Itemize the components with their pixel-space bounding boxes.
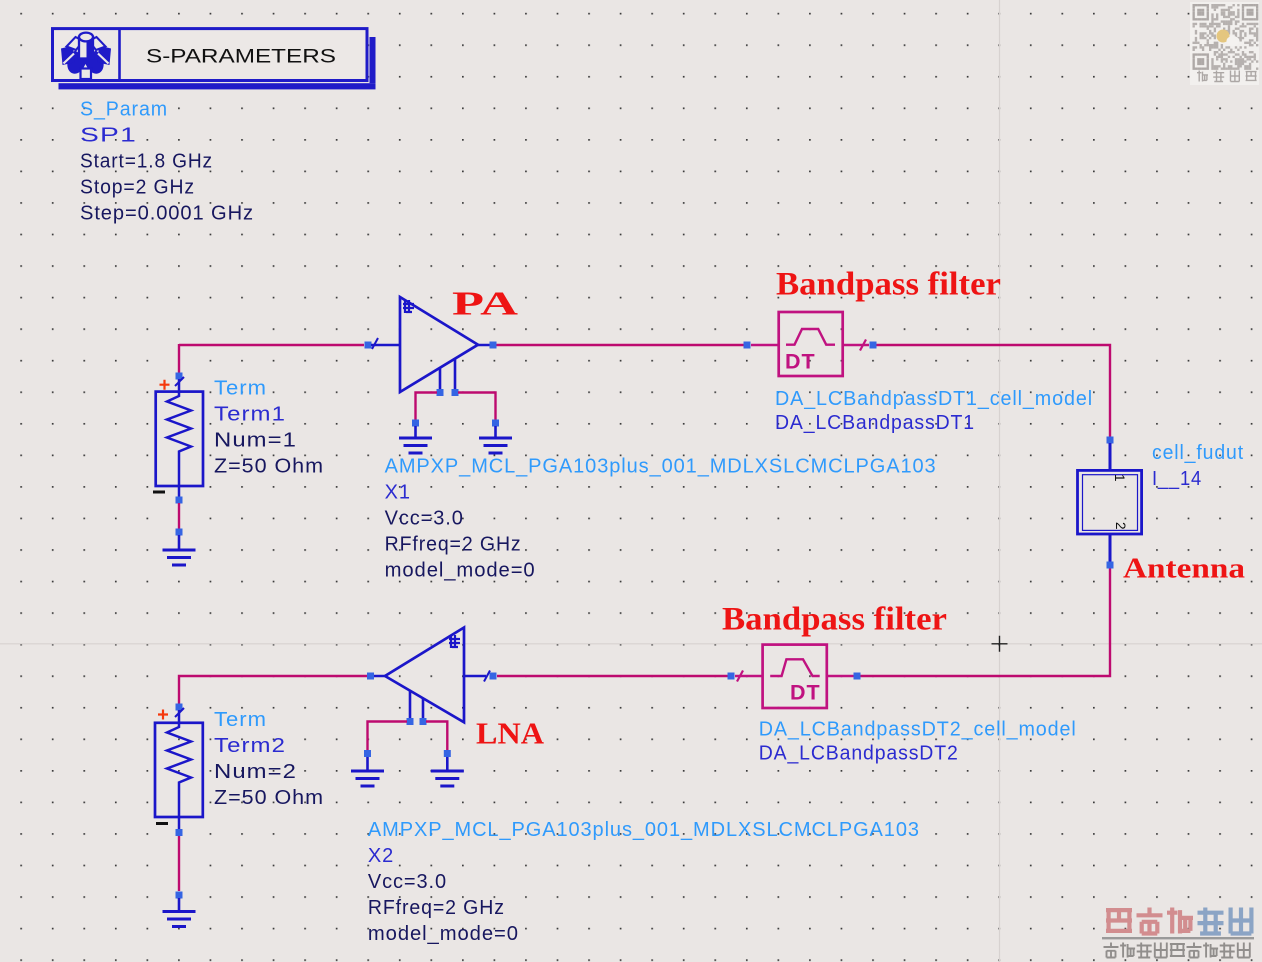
op-amp X2 LNA triangle xyxy=(373,628,486,723)
svg-text:Term: Term xyxy=(214,709,267,731)
svg-text:Bandpass filter: Bandpass filter xyxy=(776,267,1001,303)
X2 name label xyxy=(368,845,394,867)
Term1 ground stub xyxy=(178,535,181,550)
Term2 Z label xyxy=(214,787,324,809)
svg-text:DA_LCBandpassDT1: DA_LCBandpassDT1 xyxy=(775,412,975,434)
site watermark xyxy=(1102,908,1254,958)
svg-text:cell_fudut: cell_fudut xyxy=(1152,442,1244,464)
X2 output node xyxy=(367,673,374,680)
wire LNA output to Term2 xyxy=(179,676,367,704)
filter DT2 input node xyxy=(728,673,735,680)
filter DT1 output tick xyxy=(860,340,866,351)
X2 model name label xyxy=(368,819,920,841)
X2 input tick xyxy=(484,671,490,682)
X1 pin4 node xyxy=(452,389,459,396)
S-PARAMETERS gear icon xyxy=(61,33,111,79)
Stop value label xyxy=(80,177,195,199)
ground (X1 left) xyxy=(399,438,432,453)
QR watermark xyxy=(1190,2,1259,85)
S-PARAMETERS title xyxy=(146,46,336,68)
svg-text:S_Param: S_Param xyxy=(80,99,168,121)
svg-text:Term2: Term2 xyxy=(214,735,286,757)
Term1 Z label xyxy=(214,456,324,478)
DT1 name label xyxy=(775,412,975,434)
filter DT1 output node xyxy=(870,342,877,349)
X1 model_mode label xyxy=(385,559,536,581)
svg-text:RFfreq=2 GHz: RFfreq=2 GHz xyxy=(385,533,522,555)
DT2 model label xyxy=(759,719,1077,741)
Step value label xyxy=(80,203,254,225)
X1 name label xyxy=(385,481,411,503)
cell_fudut label xyxy=(1152,442,1244,464)
Term2 resistor body xyxy=(155,710,203,829)
filter DT1 input node xyxy=(744,342,751,349)
X1 ground stub right xyxy=(494,426,497,438)
wire X2 pin4 to ground xyxy=(426,722,447,751)
svg-text:DT: DT xyxy=(790,681,821,705)
Term label (Term2) xyxy=(214,709,267,731)
Term1 node bottom xyxy=(176,497,183,504)
svg-text:PA: PA xyxy=(452,286,519,323)
Term1 pin tick xyxy=(175,377,184,386)
svg-text:AMPXP_MCL_PGA103plus_001_MDLXS: AMPXP_MCL_PGA103plus_001_MDLXSLCMCLPGA10… xyxy=(385,455,937,477)
wire X1 pin4 to ground xyxy=(458,393,496,421)
X2 RFfreq label xyxy=(368,897,505,919)
X2 ground stub right xyxy=(446,757,449,771)
svg-text:Z=50 Ohm: Z=50 Ohm xyxy=(214,787,324,809)
ground (X1 right) xyxy=(479,438,512,453)
svg-text:X2: X2 xyxy=(368,845,394,867)
Term2 minus sign xyxy=(156,822,168,825)
X1 pin3 node xyxy=(437,389,444,396)
svg-text:Vcc=3.0: Vcc=3.0 xyxy=(385,507,464,529)
Term2 name label xyxy=(214,735,286,757)
svg-text:Bandpass filter: Bandpass filter xyxy=(722,602,947,638)
Term2 node bottom xyxy=(176,829,183,836)
svg-text:RFfreq=2 GHz: RFfreq=2 GHz xyxy=(368,897,505,919)
X2 ground stub left xyxy=(366,757,369,771)
Term2 ground node xyxy=(176,892,183,899)
X1 ground node left xyxy=(412,420,419,427)
Term2 Num label xyxy=(214,761,297,783)
S-PARAMETERS controller box xyxy=(53,29,368,81)
wire PA output to filter1 xyxy=(496,344,744,346)
Term1 node top xyxy=(176,373,183,380)
X1 input tick xyxy=(372,338,378,349)
X1 output node xyxy=(490,342,497,349)
X2 pin4 node xyxy=(420,718,427,725)
Term1 name label xyxy=(214,404,286,426)
ground (X2 right) xyxy=(431,771,464,786)
svg-text:DA_LCBandpassDT1_cell_model: DA_LCBandpassDT1_cell_model xyxy=(775,388,1093,410)
Term label (Term1) xyxy=(214,378,267,400)
DT2 name label xyxy=(759,743,959,765)
Term1 ground xyxy=(163,550,196,565)
wire Term1 corner down xyxy=(178,344,180,373)
op-amp X2 LNA input node xyxy=(490,673,497,680)
Term2 ground stub xyxy=(178,898,181,912)
PA label xyxy=(452,286,519,323)
Bandpass filter label (bottom) xyxy=(722,602,947,638)
Term2 ground xyxy=(163,912,196,927)
SP1 label xyxy=(80,125,137,147)
filter DT2 output node xyxy=(854,673,861,680)
svg-text:Step=0.0001 GHz: Step=0.0001 GHz xyxy=(80,203,254,225)
op-amp X1 PA input node xyxy=(365,342,372,349)
wire Term1 to PA input xyxy=(179,344,364,346)
wire antenna to filter2 xyxy=(860,565,1110,676)
Term1 Num label xyxy=(214,430,297,452)
wire Term2 to ground xyxy=(178,836,180,891)
svg-text:model_mode=0: model_mode=0 xyxy=(368,923,519,945)
svg-text:Vcc=3.0: Vcc=3.0 xyxy=(368,871,447,893)
antenna node top xyxy=(1107,437,1114,444)
antenna node bottom xyxy=(1107,562,1114,569)
Term1 plus sign xyxy=(160,380,170,390)
Term2 plus sign xyxy=(158,710,168,720)
svg-text:Num=2: Num=2 xyxy=(214,761,297,783)
wire X1 pin3 to ground xyxy=(416,393,438,421)
Bandpass filter label (top) xyxy=(776,267,1001,303)
LNA label xyxy=(476,716,545,751)
svg-text:Z=50 Ohm: Z=50 Ohm xyxy=(214,456,324,478)
S-PARAMETERS controller box shadow xyxy=(59,37,376,89)
filter DT1 box xyxy=(751,312,869,376)
antenna I__14 xyxy=(1078,443,1142,562)
filter DT2 box xyxy=(735,645,856,708)
antenna pin 2 number xyxy=(1113,522,1128,530)
svg-text:DT: DT xyxy=(785,350,816,374)
Term2 node top xyxy=(176,704,183,711)
Antenna label xyxy=(1123,553,1246,585)
S_Param label xyxy=(80,99,168,121)
svg-text:Term: Term xyxy=(214,378,267,400)
X2 model_mode label xyxy=(368,923,519,945)
Start value label xyxy=(80,151,213,173)
filter DT2 input tick xyxy=(737,671,743,682)
Term1 ground node xyxy=(176,529,183,536)
wire filter1 to antenna xyxy=(876,345,1110,438)
svg-text:Start=1.8 GHz: Start=1.8 GHz xyxy=(80,151,213,173)
svg-text:DA_LCBandpassDT2: DA_LCBandpassDT2 xyxy=(759,743,959,765)
X1 Vcc label xyxy=(385,507,464,529)
svg-text:DA_LCBandpassDT2_cell_model: DA_LCBandpassDT2_cell_model xyxy=(759,719,1077,741)
svg-text:Term1: Term1 xyxy=(214,404,286,426)
X2 ground node left xyxy=(364,750,371,757)
Term1 resistor body xyxy=(156,379,203,497)
svg-text:Antenna: Antenna xyxy=(1123,553,1246,585)
svg-text:AMPXP_MCL_PGA103plus_001_MDLXS: AMPXP_MCL_PGA103plus_001_MDLXSLCMCLPGA10… xyxy=(368,819,920,841)
X1 ground node right xyxy=(492,420,499,427)
svg-text:Stop=2 GHz: Stop=2 GHz xyxy=(80,177,195,199)
Term1 minus sign xyxy=(153,491,165,494)
ground (X2 left) xyxy=(351,771,384,786)
wire Term1 to ground xyxy=(178,503,180,529)
X2 ground node right xyxy=(444,750,451,757)
svg-text:1: 1 xyxy=(1112,474,1127,482)
op-amp X1 PA triangle xyxy=(371,297,491,392)
svg-text:I__14: I__14 xyxy=(1152,468,1202,490)
X2 pin3 node xyxy=(407,718,414,725)
X1 RFfreq label xyxy=(385,533,522,555)
wire X2 pin3 to ground xyxy=(368,722,408,751)
DT1 model label xyxy=(775,388,1093,410)
svg-text:Num=1: Num=1 xyxy=(214,430,297,452)
X1 ground stub left xyxy=(414,426,417,438)
Term2 pin tick xyxy=(175,708,184,717)
svg-text:2: 2 xyxy=(1113,522,1128,530)
svg-text:model_mode=0: model_mode=0 xyxy=(385,559,536,581)
I__14 label xyxy=(1152,468,1202,490)
svg-text:X1: X1 xyxy=(385,481,411,503)
svg-text:LNA: LNA xyxy=(476,716,545,751)
X2 Vcc label xyxy=(368,871,447,893)
wire filter2 to LNA input xyxy=(497,675,728,677)
svg-text:S-PARAMETERS: S-PARAMETERS xyxy=(146,46,336,68)
antenna pin 1 number xyxy=(1112,474,1127,482)
X1 model name label xyxy=(385,455,937,477)
svg-text:SP1: SP1 xyxy=(80,125,137,147)
